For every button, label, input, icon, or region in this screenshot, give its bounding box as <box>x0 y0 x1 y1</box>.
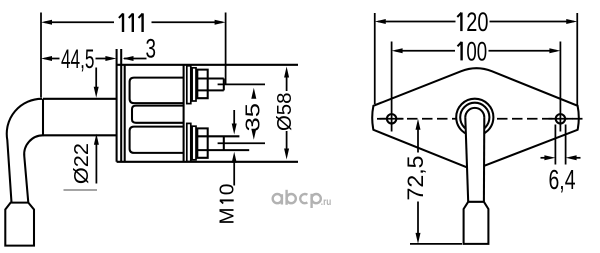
arrow 100 left <box>392 48 403 53</box>
top barrel <box>130 78 184 104</box>
svg-text:35: 35 <box>242 103 265 132</box>
lever outer edge <box>7 99 42 203</box>
dim 120 extension left <box>374 13 376 104</box>
label M10 rotated <box>216 184 239 225</box>
dim 120 extension right <box>576 13 578 105</box>
arrow 6,4 right pointing left <box>566 155 577 160</box>
dim 3 line <box>124 58 147 60</box>
dim Ø22 lower leader <box>95 144 97 184</box>
svg-text:00: 00 <box>466 36 487 66</box>
dim Ø58 line lower <box>286 131 288 149</box>
arrow 35 down <box>251 129 256 140</box>
dim 100 extension right / right hole vertical <box>559 42 561 132</box>
middle band <box>132 106 184 123</box>
tube body Ø22 <box>43 99 117 136</box>
dim 44,5 line <box>45 58 106 60</box>
arrow 3 left <box>123 56 134 61</box>
arrow 120 left <box>375 19 386 24</box>
mounting plate front line <box>116 49 118 162</box>
arrow Ø22 up <box>94 134 99 145</box>
right hole <box>556 114 565 123</box>
arrow 72,5 up <box>416 119 421 130</box>
arrow M10 down <box>232 124 237 135</box>
dim 6,4 left stem <box>541 157 546 159</box>
watermark letter p <box>312 194 321 203</box>
svg-text:6,4: 6,4 <box>549 164 576 195</box>
lever grip side view <box>5 203 34 246</box>
arrow Ø58 up <box>284 67 289 78</box>
arrow 72,5 down <box>416 233 421 244</box>
watermark letter a <box>273 194 282 203</box>
label 100 <box>458 42 462 61</box>
housing top line / Ø58 top extension <box>117 64 298 66</box>
centerline dashed <box>377 118 585 120</box>
housing face line <box>183 65 185 162</box>
arrow 111 right <box>215 20 226 25</box>
boss middle circle <box>460 103 489 132</box>
dim Ø22 upper leader <box>95 68 97 89</box>
svg-text:3: 3 <box>146 34 157 64</box>
dim 111 extension right <box>225 13 227 85</box>
left hole <box>387 114 396 123</box>
right hole crosshair horizontal <box>549 118 573 120</box>
svg-text:20: 20 <box>466 7 488 37</box>
housing bottom line / Ø58 bottom extension <box>117 161 298 163</box>
arrow 44,5 right <box>105 56 116 61</box>
dim 111 extension left <box>40 13 42 98</box>
boss outer circle <box>456 99 493 136</box>
arrow 44,5 left <box>41 56 52 61</box>
stud1 axis line / 35 extension top <box>218 83 265 85</box>
stud1 disc1 <box>187 66 191 104</box>
dim M10 lower leader <box>233 162 235 186</box>
arrow 120 right <box>566 19 577 24</box>
lever inner edge <box>24 135 43 202</box>
stud2 axis line / 35 extension bottom <box>218 142 265 144</box>
svg-text:Ø58: Ø58 <box>273 93 296 132</box>
left hole crosshair horizontal <box>380 118 404 120</box>
watermark letter c <box>300 194 307 203</box>
dim 6,4 extension right <box>565 125 567 165</box>
dim 120 line <box>378 21 573 23</box>
stud2 threaded stud M10 with extended edge lines <box>208 136 250 150</box>
shaft right edge <box>483 117 485 201</box>
housing rear line <box>124 65 126 162</box>
grip bottom extension line <box>410 243 462 245</box>
svg-text:Ø22: Ø22 <box>70 143 93 184</box>
dim 72,5 line lower <box>417 202 419 234</box>
arrow 35 up <box>251 88 256 99</box>
dim 100 extension left / left hole vertical <box>391 42 393 132</box>
dim M10 upper leader <box>233 110 235 125</box>
label 120 <box>457 13 461 32</box>
watermark letter b <box>287 194 296 203</box>
dim 100 line <box>396 50 557 52</box>
stud1 disc2 <box>192 68 196 101</box>
arrow M10 up <box>232 152 237 163</box>
stud2 disc2 <box>192 126 196 160</box>
stud2 hex nut <box>197 128 207 157</box>
arrow Ø58 down <box>284 149 289 160</box>
dim Ø22 underline <box>64 189 98 191</box>
svg-text:M: M <box>216 208 239 225</box>
boss inner arc / shaft tube top <box>465 108 484 118</box>
mounting plate rear line <box>120 49 122 162</box>
dim 72,5 line upper <box>417 129 419 153</box>
svg-text:.ru: .ru <box>321 197 332 208</box>
arrow 111 left <box>41 20 52 25</box>
dim 111 line <box>45 21 223 23</box>
arrow 6,4 left pointing right <box>544 155 555 160</box>
shaft left edge <box>465 117 468 201</box>
svg-text:44,5: 44,5 <box>61 44 95 74</box>
arrow Ø22 down <box>94 87 99 98</box>
lever shaft right view white fill <box>464 117 489 243</box>
bottom barrel <box>130 127 184 153</box>
grip right view <box>464 202 489 244</box>
dim Ø58 line upper <box>286 77 288 92</box>
arrow 100 right <box>549 48 560 53</box>
stud1 hex nut <box>197 70 207 99</box>
dim 6,4 right stem <box>576 157 581 159</box>
stud1 threaded stud M10 <box>208 79 224 91</box>
flange diamond outline <box>372 68 579 167</box>
dim 6,4 extension left <box>554 125 556 165</box>
stud2 disc1 <box>187 123 191 161</box>
label 111 drawn <box>119 13 143 32</box>
svg-text:72,5: 72,5 <box>403 156 428 201</box>
watermark abcp.ru <box>273 190 321 208</box>
svg-text:0: 0 <box>216 184 239 196</box>
